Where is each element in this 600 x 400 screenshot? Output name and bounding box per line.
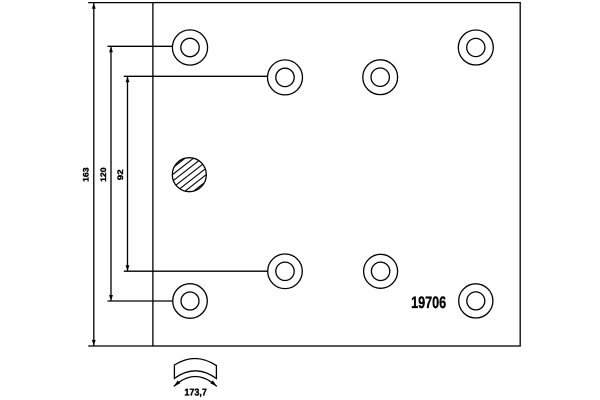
hatched hole marker: [162, 149, 216, 201]
extension line to hole B (y=76.3): [124, 75, 268, 77]
rivet hole B inner: [276, 68, 294, 86]
arrow up dim92: [126, 76, 130, 82]
curvature band symbol: [174, 358, 216, 378]
rivet hole G inner: [371, 262, 389, 280]
rivet hole B outer: [268, 60, 303, 95]
arrow down dim163: [92, 340, 96, 346]
dimension line 92 (vertical): [127, 76, 129, 271]
rivet hole E outer: [173, 284, 208, 319]
rivet hole C inner: [371, 68, 389, 86]
arrow up dim120: [109, 46, 113, 52]
arrow down dim92: [126, 265, 130, 271]
rivet hole E inner: [181, 292, 199, 310]
rivet hole H outer: [459, 284, 493, 318]
rivet hole A inner: [181, 38, 199, 56]
rivet hole F inner: [276, 262, 294, 280]
extension line to hole E (y=301): [108, 300, 173, 302]
radius dimension arc: [174, 377, 217, 387]
top edge extension line: [88, 2, 153, 4]
svg-text:173,7: 173,7: [184, 387, 207, 398]
extension line to hole F (y=271.2): [124, 270, 268, 272]
arc arrow left: [174, 380, 181, 386]
arrow up dim163: [92, 3, 96, 9]
dimension line 120 (vertical): [110, 46, 112, 301]
rivet hole A outer: [172, 30, 207, 65]
rivet hole D outer: [458, 30, 493, 65]
svg-text:120: 120: [99, 167, 108, 182]
arc arrow right: [210, 380, 217, 386]
rivet hole F outer: [268, 254, 303, 289]
rivet hole C outer: [363, 60, 398, 95]
rivet hole H inner: [467, 292, 485, 310]
extension line to hole A (y=46.3): [108, 45, 173, 47]
svg-text:163: 163: [82, 167, 91, 182]
brake lining plate outline: [153, 3, 520, 346]
arrow down dim120: [109, 295, 113, 301]
svg-text:19706: 19706: [411, 293, 446, 312]
svg-text:92: 92: [116, 169, 125, 180]
rivet hole G outer: [364, 254, 398, 288]
rivet hole D inner: [467, 38, 485, 56]
dimension line 163 (vertical): [93, 3, 95, 346]
bottom edge extension line: [88, 345, 153, 347]
